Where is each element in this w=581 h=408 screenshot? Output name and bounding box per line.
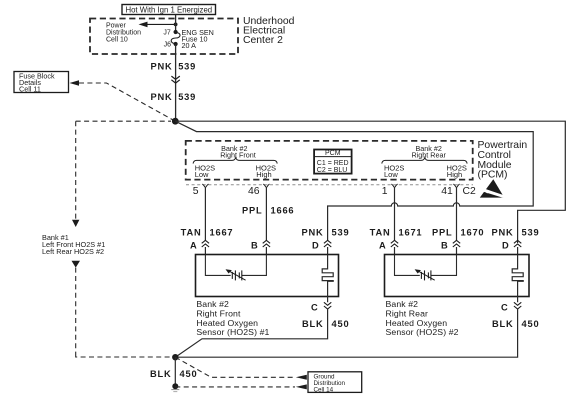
wire PNK 539 to D sensor2 bbox=[491, 227, 539, 237]
svg-text:Left Rear HO2S #2: Left Rear HO2S #2 bbox=[42, 247, 104, 256]
svg-text:1670: 1670 bbox=[461, 227, 485, 237]
svg-text:450: 450 bbox=[522, 319, 540, 329]
svg-text:BLK: BLK bbox=[150, 369, 172, 379]
dashed reference line to Fuse Block bbox=[79, 83, 174, 121]
svg-text:D: D bbox=[502, 241, 510, 251]
sensor1 label bbox=[196, 299, 269, 337]
wire PPL 1670 pin41 to B sensor2, hop over PNK wire bbox=[456, 187, 458, 241]
sensor1 sensing element (variable cell) bbox=[226, 269, 246, 280]
Underhood Electrical Center 2 dashed box bbox=[90, 19, 238, 55]
svg-text:TAN: TAN bbox=[181, 227, 202, 237]
svg-text:46: 46 bbox=[248, 186, 260, 197]
svg-text:539: 539 bbox=[522, 227, 540, 237]
pin 1 terminal bbox=[382, 184, 398, 197]
Powertrain Control Module (PCM) label bbox=[478, 140, 528, 181]
Fuse Block Details Cell 11 box bbox=[14, 71, 69, 93]
svg-text:539: 539 bbox=[332, 227, 350, 237]
svg-text:Center 2: Center 2 bbox=[243, 35, 283, 46]
svg-text:450: 450 bbox=[332, 319, 350, 329]
svg-text:PPL: PPL bbox=[432, 227, 452, 237]
sensor1 heater element bbox=[322, 255, 333, 297]
ground node G bbox=[172, 383, 178, 389]
inline connector on PNK wire bbox=[171, 76, 179, 83]
svg-text:1666: 1666 bbox=[271, 205, 295, 215]
Underhood Electrical Center 2 label bbox=[243, 16, 295, 46]
svg-text:20 A: 20 A bbox=[182, 41, 197, 50]
svg-text:PPL: PPL bbox=[242, 205, 262, 215]
svg-text:A: A bbox=[190, 241, 198, 251]
svg-text:450: 450 bbox=[180, 369, 198, 379]
sensor2 pin A connector bbox=[379, 240, 398, 254]
fuse F10 ENG SEN bbox=[171, 33, 180, 44]
PNK wire branch to sensor 2 heater: top run bbox=[175, 121, 565, 243]
pin 46 terminal bbox=[248, 184, 270, 197]
svg-text:PNK: PNK bbox=[150, 62, 172, 72]
sensor1 pin A connector bbox=[190, 240, 209, 254]
sensor1 pin C connector bbox=[311, 302, 331, 312]
Bank #1 label bbox=[42, 233, 105, 256]
svg-text:41: 41 bbox=[441, 186, 453, 197]
wire PPL 1666 pin46 to B bbox=[265, 187, 267, 241]
wire from Hot box to J7 bbox=[175, 15, 177, 33]
svg-text:1667: 1667 bbox=[210, 227, 234, 237]
node J6 bbox=[174, 42, 178, 46]
Ground Distribution Cell 14 box bbox=[308, 372, 362, 394]
Bank #2 Right Front brace bbox=[193, 158, 277, 164]
svg-text:Low: Low bbox=[384, 170, 398, 179]
Bank #1 dashed reference: top horizontal bbox=[76, 120, 171, 122]
svg-text:PNK: PNK bbox=[491, 227, 513, 237]
junction node splice S2 bbox=[172, 354, 178, 360]
ground marker bbox=[171, 390, 179, 392]
svg-text:Sensor (HO2S) #1: Sensor (HO2S) #1 bbox=[196, 327, 269, 337]
svg-text:5: 5 bbox=[193, 186, 199, 197]
PCM connector legend box bbox=[314, 150, 352, 174]
sensor2 box HO2S #2 bbox=[385, 255, 530, 297]
svg-text:PNK: PNK bbox=[301, 227, 323, 237]
wire BLK 450 to ground bbox=[174, 357, 176, 386]
svg-text:J6: J6 bbox=[164, 41, 172, 48]
svg-text:1: 1 bbox=[382, 186, 388, 197]
sensor2 pin B connector bbox=[441, 240, 460, 254]
wire label PNK 539 bbox=[150, 62, 196, 72]
wire TAN 1671 pin1 to A sensor2, hop over PNK wire bbox=[394, 187, 396, 241]
svg-text:C: C bbox=[501, 302, 509, 312]
svg-text:C: C bbox=[311, 302, 319, 312]
sensor1 pin D connector bbox=[312, 240, 331, 254]
svg-text:539: 539 bbox=[178, 92, 196, 102]
PCM dashed box bbox=[186, 141, 473, 180]
ESD sensitive symbol bbox=[477, 179, 508, 199]
svg-text:Right Front: Right Front bbox=[220, 150, 256, 159]
svg-text:539: 539 bbox=[178, 62, 196, 72]
sensor1 internal wires bbox=[205, 255, 266, 276]
sensor2 internal wires bbox=[395, 255, 457, 276]
sensor2 label bbox=[386, 299, 459, 337]
node J7 bbox=[174, 30, 178, 34]
arrowhead down bbox=[72, 220, 79, 227]
wire PNK 539 to D sensor1 bbox=[301, 227, 349, 237]
sensor2 sensing element (variable cell) bbox=[415, 269, 435, 280]
sensor2 pin C connector bbox=[501, 302, 521, 312]
arrow to Power Distribution bbox=[139, 22, 178, 28]
PNK wire branch to sensor 1 heater: around PCM bbox=[175, 121, 533, 240]
connector triangle symbol bbox=[72, 261, 81, 268]
svg-text:Cell 14: Cell 14 bbox=[314, 386, 334, 393]
Hot With Ign 1 Energized label box bbox=[122, 5, 216, 15]
wire BLK 450 sensor1 C bbox=[175, 297, 327, 358]
svg-text:B: B bbox=[441, 241, 449, 251]
sensor1 pin B connector bbox=[251, 240, 270, 254]
svg-text:BLK: BLK bbox=[302, 319, 324, 329]
pin 5 terminal bbox=[193, 184, 209, 197]
wire PNK 539 from J6 down bbox=[175, 44, 177, 121]
svg-text:Right Rear: Right Rear bbox=[412, 150, 447, 159]
dashed reference to Ground Distribution lower bbox=[175, 386, 295, 388]
wire TAN 1667 pin5 to A bbox=[204, 187, 206, 241]
sensor2 pin D connector bbox=[502, 240, 521, 254]
svg-text:A: A bbox=[379, 241, 387, 251]
svg-text:C1 = RED: C1 = RED bbox=[317, 160, 349, 167]
svg-text:High: High bbox=[447, 170, 462, 179]
Bank #1 dashed reference: left vertical upper bbox=[75, 121, 77, 219]
svg-text:Power: Power bbox=[106, 23, 127, 30]
svg-text:BLK: BLK bbox=[492, 319, 514, 329]
connector face dashed line bbox=[186, 184, 473, 186]
svg-text:J7: J7 bbox=[163, 29, 171, 36]
sensor1 box HO2S #1 bbox=[196, 255, 339, 297]
fuse value label bbox=[182, 28, 214, 50]
wire label PNK 539 bbox=[150, 92, 196, 102]
svg-text:Distribution: Distribution bbox=[106, 30, 141, 37]
svg-text:C2: C2 bbox=[463, 186, 477, 197]
Bank #2 Right Rear brace bbox=[382, 158, 467, 164]
svg-text:TAN: TAN bbox=[370, 227, 391, 237]
dashed reference to Ground Distribution upper bbox=[175, 357, 295, 377]
svg-text:D: D bbox=[312, 241, 320, 251]
arrowhead to Fuse Block box bbox=[70, 80, 80, 86]
sensor2 heater element bbox=[512, 255, 523, 297]
junction node splice S1 bbox=[172, 118, 179, 125]
svg-text:C2 = BLU: C2 = BLU bbox=[317, 167, 348, 174]
wire BLK 450 sensor2 C bbox=[175, 297, 517, 358]
svg-text:B: B bbox=[251, 241, 259, 251]
svg-text:Sensor (HO2S) #2: Sensor (HO2S) #2 bbox=[386, 327, 459, 337]
svg-text:PNK: PNK bbox=[150, 92, 172, 102]
svg-text:(PCM): (PCM) bbox=[478, 170, 508, 181]
svg-text:Cell 11: Cell 11 bbox=[19, 84, 41, 93]
svg-text:High: High bbox=[256, 170, 271, 179]
Bank #1 dashed reference: bottom horizontal bbox=[76, 354, 171, 358]
pin 41 terminal and C2 bbox=[441, 184, 476, 197]
svg-text:1671: 1671 bbox=[399, 227, 423, 237]
Bank #1 dashed reference: left vertical lower bbox=[75, 268, 77, 354]
svg-text:Cell 10: Cell 10 bbox=[106, 37, 128, 44]
svg-text:Hot With Ign 1 Energized: Hot With Ign 1 Energized bbox=[125, 5, 212, 14]
Power Distribution Cell 10 label bbox=[106, 23, 141, 44]
svg-text:Low: Low bbox=[195, 170, 209, 179]
svg-text:PCM: PCM bbox=[325, 150, 341, 157]
